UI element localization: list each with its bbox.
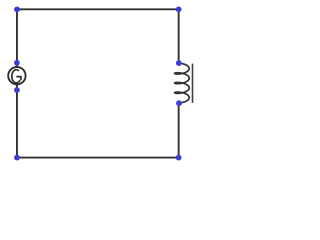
wire right upper	[178, 9, 180, 63]
generator U1 circle	[8, 67, 25, 84]
wire left	[16, 9, 18, 157]
inductor L1 coil	[175, 63, 190, 103]
node generator bottom	[14, 87, 20, 93]
node inductor top	[176, 60, 182, 66]
node bottom-right	[176, 155, 182, 161]
wire bottom	[17, 157, 179, 159]
wire right lower	[178, 103, 180, 157]
wire top	[17, 8, 179, 10]
node inductor bottom	[176, 100, 182, 106]
node bottom-left	[14, 155, 20, 161]
node top-right	[176, 6, 182, 12]
node generator top	[14, 60, 20, 66]
node top-left	[14, 6, 20, 12]
inductor core bar	[192, 64, 194, 103]
generator label G	[12, 70, 20, 83]
